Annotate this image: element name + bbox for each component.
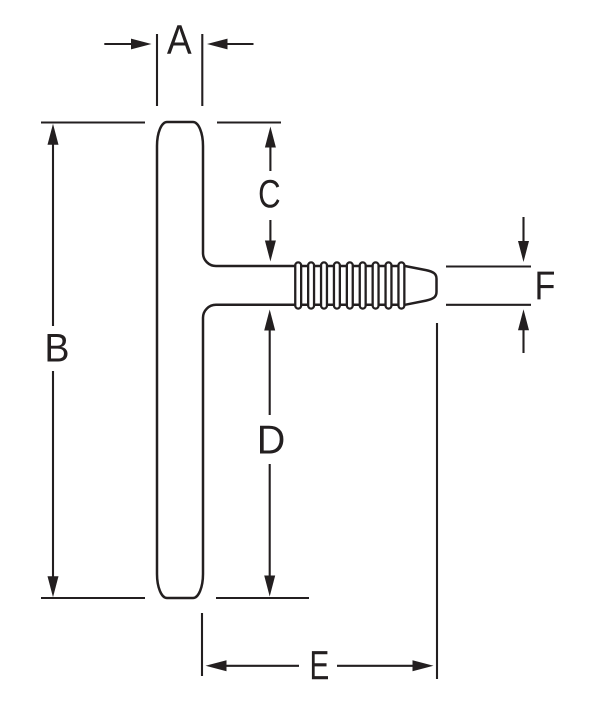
thread ring 6 (360, 262, 366, 308)
thread ring 8 (386, 262, 392, 308)
bottom extension line of B (41, 597, 145, 599)
dimension A right arrowhead (207, 39, 228, 50)
dimension A right arrow line (227, 43, 254, 45)
dimension B up arrowhead (48, 124, 59, 145)
thread ring 3 (321, 262, 327, 308)
label C (260, 180, 280, 208)
thread ring 9 (398, 262, 404, 308)
dimension A left arrowhead (131, 39, 152, 50)
label B (48, 334, 68, 361)
dimension B line lower (52, 371, 54, 582)
dimension B line upper (52, 140, 54, 326)
dimension A extension line left (104, 34, 253, 106)
dimension E left arrowhead (206, 660, 227, 671)
thread ring 7 (373, 262, 379, 308)
dimension F up arrowhead (518, 309, 529, 330)
dimension D down arrowhead (264, 576, 275, 597)
top extension line of B (41, 123, 309, 599)
thread ring 5 (347, 262, 353, 308)
dimension F up arrow line (522, 329, 524, 353)
dimension F down arrow line (522, 217, 524, 242)
dimension C down arrowhead (265, 241, 276, 262)
dimension B down arrowhead (48, 576, 59, 597)
label D (260, 426, 283, 454)
label E (312, 651, 328, 679)
dimension F down arrowhead (518, 241, 529, 262)
T-handle part outline (handle + shaft + tip) (157, 122, 437, 598)
thread ring 4 (334, 262, 340, 308)
dimension D up arrow line (269, 329, 271, 578)
dimension E right arrowhead (413, 660, 434, 671)
dimension C down arrow line (269, 220, 271, 242)
dimension E left line (226, 665, 299, 667)
thread ring 1 (295, 262, 404, 308)
dimension D up arrowhead (264, 310, 275, 331)
dimension C up arrow line (269, 145, 271, 242)
label F (537, 272, 554, 300)
thread ring 2 (308, 262, 314, 308)
label A (167, 25, 192, 53)
dimension A left arrow line (104, 43, 132, 45)
dimension F bottom extension line (446, 304, 531, 306)
dimension E right extension line (436, 323, 438, 679)
dimension C up arrowhead (265, 127, 276, 148)
dimension A extension line right (201, 34, 203, 106)
dimension E right line (337, 665, 414, 667)
dimension D down arrow line (269, 464, 271, 578)
dimension F top extension line (446, 217, 531, 353)
dimension E left extension line (202, 323, 437, 679)
